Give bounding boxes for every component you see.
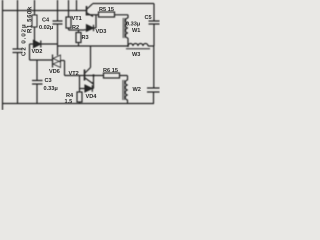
- label W1: [132, 28, 140, 34]
- capacitor C5: [149, 21, 160, 24]
- svg-text:1.5: 1.5: [65, 99, 73, 105]
- svg-text:VT1: VT1: [72, 16, 82, 22]
- svg-text:W1: W1: [132, 28, 140, 34]
- label R3: [82, 35, 89, 41]
- wire C5 bottom to mid node: [153, 25, 155, 47]
- wire W1 bottom to mid rail: [127, 38, 129, 46]
- label 0.02u: [39, 25, 54, 31]
- wire R4 bottom: [79, 102, 81, 104]
- wire R1 branch top: [34, 0, 36, 15]
- svg-text:R1 560k: R1 560k: [28, 6, 34, 33]
- label VD3: [96, 29, 107, 35]
- wire C3 branch top: [36, 60, 38, 80]
- resistor R2: [66, 17, 71, 28]
- wire R1 to VD2: [34, 27, 36, 41]
- wire C2 branch top: [17, 0, 19, 49]
- label C3: [45, 78, 52, 84]
- wire R6 to W2: [120, 76, 128, 81]
- label C4: [42, 18, 50, 24]
- svg-text:VD2: VD2: [32, 49, 43, 55]
- wire W3 right to corner: [148, 45, 154, 47]
- svg-text:0.33μ: 0.33μ: [44, 86, 59, 92]
- wire rail down to C5: [153, 4, 155, 21]
- svg-text:VT2: VT2: [69, 71, 79, 77]
- wire C3 branch bottom: [36, 85, 38, 104]
- diac VD6: [53, 55, 65, 68]
- label C2 0.02u: [22, 23, 28, 56]
- wire stub above VT1 base: [76, 0, 78, 11]
- wire VT2 collector to mid rail: [90, 46, 92, 68]
- capacitor C3: [32, 81, 43, 85]
- capacitor C2: [13, 49, 23, 53]
- label R4: [66, 93, 74, 99]
- svg-text:0.02μ: 0.02μ: [39, 25, 54, 31]
- wire VD2 anode down: [29, 44, 31, 60]
- wire right vertical bottom: [153, 92, 155, 104]
- frame left border: [2, 0, 4, 110]
- svg-text:R5 15: R5 15: [99, 7, 114, 13]
- wire R3 bottom to mid rail: [78, 43, 80, 47]
- label VD4: [86, 94, 98, 100]
- winding W3: [126, 44, 150, 49]
- wire R5 to W1: [115, 15, 129, 18]
- label 0.33u of C3: [44, 86, 59, 92]
- transistor VT1: [87, 4, 99, 17]
- diode VD2: [30, 41, 58, 48]
- diode VD4: [80, 85, 94, 92]
- label 0.33u of C5: [126, 22, 141, 28]
- label R5 15: [99, 7, 114, 13]
- wire VD3 vertical from emitter line: [95, 15, 97, 28]
- wire C4 bottom to VD2 node and diac: [57, 25, 59, 56]
- svg-text:W3: W3: [132, 52, 140, 58]
- svg-text:C4: C4: [42, 18, 50, 24]
- wire VT1 base line: [3, 10, 87, 12]
- label R1 560k: [28, 6, 34, 33]
- svg-text:0.33μ: 0.33μ: [126, 22, 141, 28]
- wire diac to VT2 base: [65, 61, 85, 76]
- wire right vertical: [153, 46, 155, 88]
- label R6 15: [103, 68, 118, 74]
- resistor R4: [77, 92, 82, 102]
- winding W1: [123, 18, 128, 38]
- wire R4 from base node down: [79, 76, 81, 93]
- label VT2: [69, 71, 79, 77]
- svg-text:W2: W2: [133, 87, 141, 93]
- svg-text:C3: C3: [45, 78, 52, 84]
- wire C2 branch bottom: [17, 53, 19, 104]
- label VD2: [32, 49, 43, 55]
- wire R2 branch top: [68, 0, 70, 17]
- resistor R5: [99, 12, 115, 17]
- wire to diac VD6: [30, 59, 53, 61]
- svg-text:R3: R3: [82, 35, 89, 41]
- wire W2 bottom to rail: [127, 100, 129, 104]
- resistor R1: [32, 15, 37, 27]
- wire bottom rail: [3, 103, 155, 105]
- wire mid rail: [58, 45, 129, 47]
- capacitor C4: [53, 21, 63, 24]
- wire R3 top: [78, 30, 80, 33]
- svg-text:R2: R2: [72, 25, 79, 31]
- label C5: [145, 15, 152, 21]
- junction dot VT2 emitter node: [92, 74, 94, 76]
- wire R2 bottom: [68, 28, 70, 30]
- diode VD3: [84, 25, 96, 31]
- svg-text:VD4: VD4: [86, 94, 98, 100]
- label W3: [132, 52, 140, 58]
- wire top right rail: [93, 3, 155, 5]
- svg-text:R6 15: R6 15: [103, 68, 118, 74]
- wire C4 branch top: [57, 0, 59, 21]
- junction dot W1 mid rail: [127, 45, 129, 47]
- capacitor C6 unlabeled: [147, 88, 160, 92]
- resistor R6: [104, 73, 120, 78]
- svg-text:VD6: VD6: [49, 69, 60, 75]
- svg-text:VD3: VD3: [96, 29, 107, 35]
- label R2: [72, 25, 79, 31]
- label VT1: [72, 16, 82, 22]
- label VD6: [49, 69, 60, 75]
- winding W2: [123, 80, 128, 100]
- svg-text:C5: C5: [145, 15, 152, 21]
- transistor VT2: [85, 68, 104, 85]
- wire R2 R3 node line: [69, 29, 85, 31]
- label W2: [133, 87, 141, 93]
- resistor R3: [76, 33, 81, 43]
- wire VT2 emitter/VD4 vertical: [93, 76, 95, 89]
- label 1.5: [65, 99, 73, 105]
